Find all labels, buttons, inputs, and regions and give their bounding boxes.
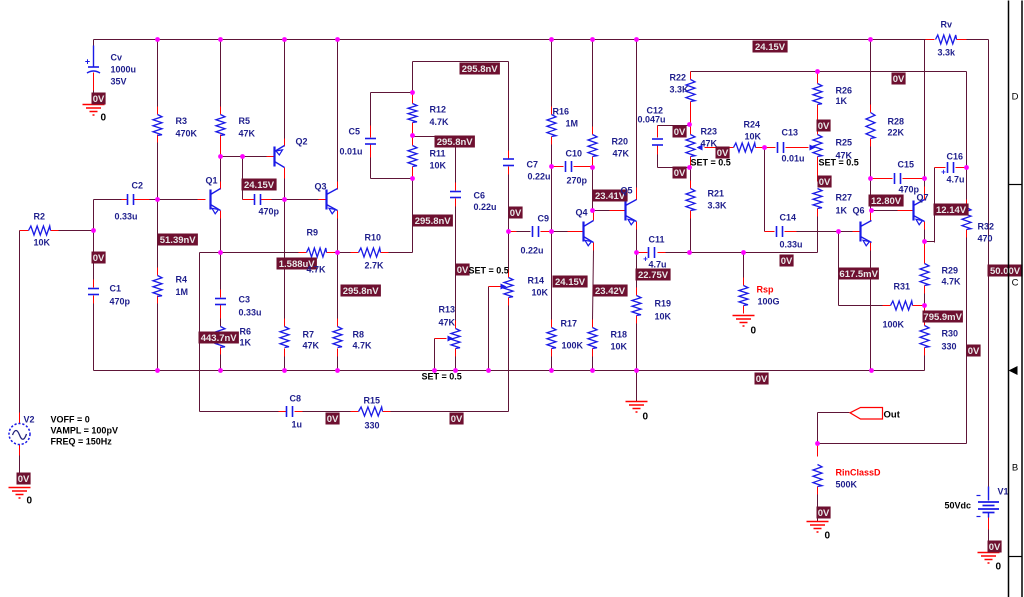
svg-text:R22: R22 bbox=[670, 73, 687, 83]
svg-text:R14: R14 bbox=[528, 276, 545, 286]
svg-text:1000u: 1000u bbox=[111, 65, 137, 75]
svg-text:295.8nV: 295.8nV bbox=[415, 216, 452, 227]
svg-text:C10: C10 bbox=[566, 149, 583, 159]
svg-text:0V: 0V bbox=[818, 508, 830, 519]
svg-text:1K: 1K bbox=[240, 338, 252, 348]
svg-text:R29: R29 bbox=[942, 266, 959, 276]
svg-text:R31: R31 bbox=[894, 282, 911, 292]
svg-text:C13: C13 bbox=[782, 128, 799, 138]
svg-text:470: 470 bbox=[978, 234, 993, 244]
svg-text:1K: 1K bbox=[836, 206, 848, 216]
svg-text:R12: R12 bbox=[430, 105, 447, 115]
svg-text:R18: R18 bbox=[611, 330, 628, 340]
svg-text:Q3: Q3 bbox=[315, 182, 327, 192]
svg-text:R23: R23 bbox=[701, 127, 718, 137]
svg-text:10K: 10K bbox=[611, 342, 628, 352]
svg-text:SET = 0.5: SET = 0.5 bbox=[469, 266, 509, 276]
svg-text:C1: C1 bbox=[110, 284, 122, 294]
svg-text:0V: 0V bbox=[93, 94, 105, 105]
svg-text:R6: R6 bbox=[240, 327, 252, 337]
svg-text:0V: 0V bbox=[674, 127, 686, 138]
svg-text:R20: R20 bbox=[612, 137, 629, 147]
svg-text:R17: R17 bbox=[561, 319, 578, 329]
svg-text:0V: 0V bbox=[457, 265, 469, 276]
svg-text:4.7u: 4.7u bbox=[947, 175, 965, 185]
svg-text:R26: R26 bbox=[836, 86, 853, 96]
svg-text:0.33u: 0.33u bbox=[239, 308, 262, 318]
svg-text:0V: 0V bbox=[818, 121, 830, 132]
svg-text:0V: 0V bbox=[327, 414, 339, 425]
svg-text:443.7nV: 443.7nV bbox=[201, 333, 238, 344]
svg-text:47K: 47K bbox=[239, 129, 256, 139]
svg-text:Q6: Q6 bbox=[853, 206, 865, 216]
svg-text:50Vdc: 50Vdc bbox=[945, 501, 972, 511]
svg-text:24.15V: 24.15V bbox=[244, 180, 275, 191]
svg-text:R15: R15 bbox=[364, 396, 381, 406]
svg-text:0.22u: 0.22u bbox=[521, 246, 544, 256]
svg-text:C6: C6 bbox=[474, 191, 486, 201]
svg-text:R32: R32 bbox=[978, 222, 995, 232]
svg-text:C14: C14 bbox=[780, 213, 797, 223]
svg-text:330: 330 bbox=[942, 342, 957, 352]
svg-text:330: 330 bbox=[365, 421, 380, 431]
svg-text:100G: 100G bbox=[758, 297, 780, 307]
svg-text:24.15V: 24.15V bbox=[755, 42, 786, 53]
svg-text:23.42V: 23.42V bbox=[595, 286, 626, 297]
svg-text:3.3k: 3.3k bbox=[938, 48, 957, 58]
svg-text:Q1: Q1 bbox=[206, 176, 218, 186]
svg-text:0: 0 bbox=[101, 113, 107, 124]
svg-text:0: 0 bbox=[825, 531, 831, 542]
svg-text:RinClassD: RinClassD bbox=[836, 468, 882, 478]
svg-text:0V: 0V bbox=[451, 414, 463, 425]
svg-text:SET = 0.5: SET = 0.5 bbox=[691, 158, 731, 168]
svg-text:SET = 0.5: SET = 0.5 bbox=[819, 158, 859, 168]
svg-text:35V: 35V bbox=[111, 77, 127, 87]
svg-text:Q4: Q4 bbox=[576, 208, 588, 218]
svg-text:R5: R5 bbox=[239, 116, 251, 126]
svg-text:0: 0 bbox=[27, 496, 33, 507]
svg-text:100K: 100K bbox=[562, 341, 584, 351]
svg-text:0.01u: 0.01u bbox=[782, 154, 805, 164]
svg-text:1u: 1u bbox=[292, 420, 303, 430]
svg-text:270p: 270p bbox=[567, 176, 588, 186]
svg-text:2.7K: 2.7K bbox=[365, 261, 385, 271]
svg-text:VAMPL = 100pV: VAMPL = 100pV bbox=[51, 426, 118, 436]
svg-text:10K: 10K bbox=[34, 238, 51, 248]
svg-text:0V: 0V bbox=[510, 208, 522, 219]
svg-text:795.9mV: 795.9mV bbox=[923, 312, 962, 323]
svg-text:10K: 10K bbox=[430, 161, 447, 171]
svg-text:0V: 0V bbox=[968, 346, 980, 357]
svg-text:R25: R25 bbox=[836, 138, 853, 148]
svg-text:47K: 47K bbox=[303, 341, 320, 351]
svg-text:0V: 0V bbox=[756, 374, 768, 385]
svg-text:D: D bbox=[1012, 92, 1019, 103]
svg-text:0V: 0V bbox=[989, 542, 1001, 553]
svg-text:R30: R30 bbox=[942, 329, 959, 339]
svg-text:R28: R28 bbox=[888, 117, 905, 127]
svg-text:1M: 1M bbox=[566, 119, 579, 129]
svg-text:4.7K: 4.7K bbox=[430, 117, 450, 127]
svg-text:3.3K: 3.3K bbox=[708, 201, 728, 211]
svg-text:C2: C2 bbox=[132, 181, 144, 191]
svg-text:C15: C15 bbox=[898, 160, 915, 170]
svg-text:V2: V2 bbox=[24, 415, 35, 425]
svg-text:1K: 1K bbox=[836, 96, 848, 106]
svg-text:C7: C7 bbox=[527, 160, 539, 170]
svg-text:SET = 0.5: SET = 0.5 bbox=[422, 372, 462, 382]
svg-text:470K: 470K bbox=[176, 129, 198, 139]
svg-text:3.3K: 3.3K bbox=[670, 85, 690, 95]
svg-text:Cv: Cv bbox=[111, 53, 123, 63]
svg-text:R9: R9 bbox=[307, 228, 319, 238]
svg-text:0.22u: 0.22u bbox=[474, 202, 497, 212]
svg-text:22K: 22K bbox=[888, 128, 905, 138]
svg-text:Rsp: Rsp bbox=[757, 285, 775, 295]
svg-text:0.01u: 0.01u bbox=[340, 147, 363, 157]
svg-text:0V: 0V bbox=[18, 474, 30, 485]
svg-text:295.8nV: 295.8nV bbox=[437, 137, 474, 148]
svg-text:R11: R11 bbox=[430, 149, 446, 159]
svg-text:4.7K: 4.7K bbox=[307, 265, 327, 275]
svg-text:V1: V1 bbox=[998, 487, 1009, 497]
svg-text:0V: 0V bbox=[93, 253, 105, 264]
svg-text:C: C bbox=[1012, 278, 1019, 289]
svg-text:R8: R8 bbox=[353, 330, 365, 340]
svg-text:C8: C8 bbox=[290, 394, 302, 404]
svg-text:295.8nV: 295.8nV bbox=[462, 64, 499, 75]
svg-text:VOFF = 0: VOFF = 0 bbox=[51, 415, 90, 425]
svg-text:12.80V: 12.80V bbox=[871, 196, 902, 207]
svg-text:0.33u: 0.33u bbox=[115, 212, 138, 222]
svg-text:47K: 47K bbox=[701, 139, 718, 149]
svg-text:0.22u: 0.22u bbox=[528, 172, 551, 182]
svg-text:4.7K: 4.7K bbox=[353, 341, 373, 351]
svg-text:295.8nV: 295.8nV bbox=[343, 286, 380, 297]
svg-text:R21: R21 bbox=[708, 189, 725, 199]
svg-text:R4: R4 bbox=[176, 275, 188, 285]
svg-text:0: 0 bbox=[751, 326, 757, 337]
svg-text:47K: 47K bbox=[439, 318, 456, 328]
svg-text:0V: 0V bbox=[819, 177, 831, 188]
svg-text:C5: C5 bbox=[349, 127, 361, 137]
svg-text:+: + bbox=[643, 255, 648, 264]
svg-text:500K: 500K bbox=[836, 480, 858, 490]
svg-text:47K: 47K bbox=[613, 149, 630, 159]
svg-text:0.047u: 0.047u bbox=[638, 115, 666, 125]
svg-text:Q7: Q7 bbox=[917, 193, 929, 203]
svg-text:+: + bbox=[941, 168, 946, 177]
svg-text:617.5mV: 617.5mV bbox=[839, 269, 878, 280]
svg-text:100K: 100K bbox=[883, 320, 905, 330]
svg-text:4.7K: 4.7K bbox=[942, 277, 962, 287]
svg-text:FREQ = 150Hz: FREQ = 150Hz bbox=[51, 437, 113, 447]
svg-text:R10: R10 bbox=[365, 233, 382, 243]
svg-text:10K: 10K bbox=[532, 288, 549, 298]
svg-text:0: 0 bbox=[643, 412, 649, 423]
svg-text:10K: 10K bbox=[745, 132, 762, 142]
svg-text:R16: R16 bbox=[553, 107, 570, 117]
svg-text:Q2: Q2 bbox=[296, 137, 308, 147]
svg-text:1M: 1M bbox=[176, 287, 189, 297]
svg-text:10K: 10K bbox=[655, 312, 672, 322]
svg-text:R7: R7 bbox=[303, 330, 315, 340]
svg-text:C16: C16 bbox=[947, 152, 964, 162]
svg-text:0V: 0V bbox=[674, 168, 686, 179]
svg-text:+: + bbox=[85, 57, 90, 67]
svg-text:B: B bbox=[1012, 463, 1018, 474]
svg-text:0: 0 bbox=[996, 562, 1002, 573]
svg-text:R19: R19 bbox=[655, 299, 672, 309]
svg-text:R24: R24 bbox=[744, 120, 761, 130]
svg-text:0.33u: 0.33u bbox=[780, 240, 803, 250]
svg-text:C9: C9 bbox=[538, 214, 550, 224]
svg-text:Out: Out bbox=[884, 410, 901, 421]
svg-text:Rv: Rv bbox=[941, 20, 953, 30]
svg-text:R2: R2 bbox=[34, 212, 46, 222]
svg-text:R27: R27 bbox=[836, 193, 853, 203]
svg-text:0V: 0V bbox=[893, 74, 905, 85]
svg-text:50.00V: 50.00V bbox=[990, 266, 1021, 277]
svg-text:22.75V: 22.75V bbox=[638, 270, 669, 281]
svg-text:R3: R3 bbox=[176, 116, 188, 126]
svg-text:470p: 470p bbox=[259, 207, 280, 217]
svg-text:C11: C11 bbox=[649, 235, 665, 245]
svg-text:4.7u: 4.7u bbox=[649, 260, 667, 270]
svg-text:C3: C3 bbox=[239, 295, 251, 305]
svg-text:Q5: Q5 bbox=[621, 186, 633, 196]
svg-text:0V: 0V bbox=[781, 256, 793, 267]
svg-text:12.14V: 12.14V bbox=[936, 205, 967, 216]
svg-text:51.39nV: 51.39nV bbox=[160, 235, 197, 246]
svg-text:24.15V: 24.15V bbox=[555, 277, 586, 288]
svg-text:470p: 470p bbox=[110, 297, 131, 307]
svg-text:R13: R13 bbox=[439, 305, 456, 315]
